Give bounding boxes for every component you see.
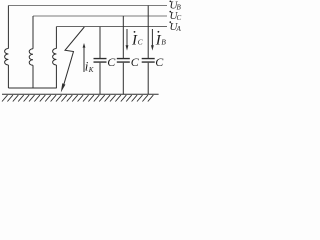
wire phase A drop to winding bbox=[55, 27, 57, 49]
lightning arrowhead bbox=[61, 83, 66, 92]
wire neutral bottom link bbox=[8, 87, 56, 89]
inductor winding phase C bbox=[29, 49, 33, 66]
wire winding C bottom bbox=[32, 65, 34, 88]
label iC bbox=[131, 31, 144, 49]
wire capacitor phase B to ground bbox=[147, 63, 149, 95]
wire phase C drop to winding bbox=[32, 16, 34, 49]
bus U_C (phase C busbar) bbox=[33, 15, 167, 17]
wire capacitor branch phase B top bbox=[147, 6, 149, 59]
lightning fault stroke to earth bbox=[64, 27, 84, 84]
capacitor C phase B bbox=[142, 59, 155, 63]
inductor winding phase A bbox=[53, 49, 57, 66]
label iK bbox=[85, 58, 94, 74]
svg-text:B: B bbox=[161, 37, 166, 46]
wire capacitor branch phase C top bbox=[122, 16, 124, 58]
label U_C bbox=[169, 10, 181, 22]
svg-text:C: C bbox=[131, 55, 140, 69]
current arrow iK (fault current, up) bbox=[83, 43, 86, 72]
ground hatching bbox=[2, 95, 153, 101]
wire capacitor branch phase A top bbox=[99, 27, 101, 58]
bus U_B (phase B busbar) bbox=[8, 5, 167, 7]
wire capacitor phase A to ground bbox=[99, 63, 101, 95]
label iB bbox=[155, 31, 166, 49]
bus U_A (phase A busbar) bbox=[56, 26, 167, 28]
ground earth line bbox=[2, 93, 159, 95]
wire winding B bottom bbox=[7, 65, 9, 88]
label U_B bbox=[169, 0, 181, 12]
svg-text:C: C bbox=[155, 55, 164, 69]
inductor winding phase B bbox=[5, 49, 9, 66]
current arrow iC (down) bbox=[126, 29, 129, 51]
svg-text:C: C bbox=[138, 37, 144, 46]
current arrow iB (down) bbox=[151, 29, 154, 51]
capacitor C phase A bbox=[94, 59, 107, 63]
wire phase B drop to winding bbox=[7, 6, 9, 49]
wire capacitor phase C to ground bbox=[122, 63, 124, 95]
svg-text:C: C bbox=[107, 55, 116, 69]
label U_A bbox=[169, 21, 181, 33]
capacitor C phase C bbox=[117, 59, 130, 63]
wire winding A bottom bbox=[55, 65, 57, 88]
svg-text:K: K bbox=[88, 66, 94, 74]
svg-text:A: A bbox=[176, 25, 182, 33]
